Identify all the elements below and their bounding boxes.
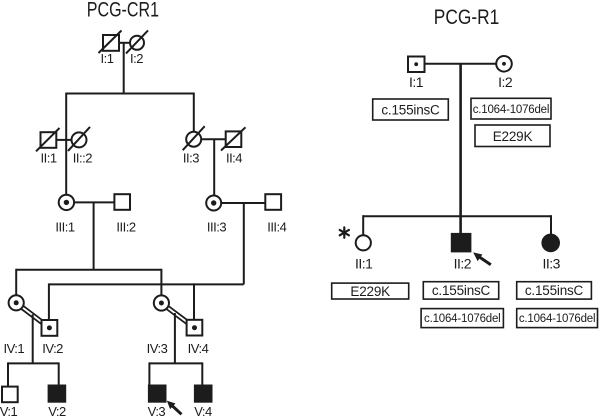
label III:3 bbox=[207, 219, 226, 234]
wire: drop to IV:1 bbox=[15, 269, 17, 296]
wire: descent from III:1 couple bbox=[93, 202, 95, 269]
label III:4 bbox=[267, 219, 286, 234]
individual I:2 carrier female right bbox=[496, 56, 512, 72]
label IV:4 bbox=[188, 341, 209, 356]
svg-text:I:1: I:1 bbox=[101, 51, 114, 66]
svg-text:I:2: I:2 bbox=[130, 51, 143, 66]
svg-text:c.155insC: c.155insC bbox=[525, 283, 584, 298]
svg-text:II::2: II::2 bbox=[73, 150, 92, 165]
label II::2 bbox=[73, 150, 92, 165]
wire: drop to V:1 bbox=[7, 362, 9, 386]
genotype box c.1064-1076del under I:2 bbox=[471, 98, 551, 119]
individual I:2 deceased female bbox=[126, 30, 148, 53]
wire: descent from IV:1 couple bbox=[32, 314, 34, 363]
label II:2 right bbox=[454, 256, 472, 272]
svg-text:III:3: III:3 bbox=[207, 219, 226, 234]
wire: right drop to II:3 bbox=[193, 93, 195, 132]
wire: descent from IV:3 couple bbox=[174, 313, 176, 363]
individual IV:3 carrier female bbox=[154, 295, 169, 310]
individual III:1 carrier female bbox=[59, 195, 74, 210]
label II:1 bbox=[41, 150, 57, 165]
svg-text:II:4: II:4 bbox=[226, 150, 242, 165]
individual III:3 carrier female bbox=[206, 196, 221, 211]
wire: sibship line generation II bbox=[66, 93, 194, 95]
svg-text:IV:4: IV:4 bbox=[188, 341, 209, 356]
label IV:1 bbox=[3, 341, 24, 356]
wire: drop to II:1 bbox=[362, 215, 364, 235]
proband arrow II:2 bbox=[473, 252, 491, 264]
wire: consanguineous double marriage line IV:3-IV:4 bbox=[161, 303, 194, 328]
svg-text:E229K: E229K bbox=[493, 129, 533, 144]
wire: marriage line I:1-I:2 left pedigree bbox=[119, 42, 130, 44]
svg-text:III:1: III:1 bbox=[55, 219, 74, 234]
wire: sibship line V (children of IV:1 x IV:2) bbox=[8, 362, 59, 364]
title PCG-CR1 bbox=[87, 0, 159, 22]
wire: sibship line IV (children of III:3 x III:4) bbox=[49, 283, 244, 285]
wire: sibship line II right pedigree bbox=[363, 215, 551, 217]
label II:3 bbox=[183, 150, 199, 165]
individual II:4 deceased male bbox=[221, 127, 246, 150]
svg-text:IV:3: IV:3 bbox=[147, 341, 168, 356]
individual V:4 affected male bbox=[195, 386, 212, 402]
genotype box c.1064-1076del under II:2 bbox=[421, 309, 503, 328]
svg-text:c.1064-1076del: c.1064-1076del bbox=[519, 313, 596, 325]
svg-text:E229K: E229K bbox=[350, 284, 390, 299]
svg-text:IV:2: IV:2 bbox=[42, 341, 63, 356]
individual I:1 deceased male bbox=[99, 31, 122, 54]
svg-text:c.155insC: c.155insC bbox=[381, 102, 440, 117]
asterisk marker at II:1 bbox=[340, 227, 349, 237]
svg-text:c.1064-1076del: c.1064-1076del bbox=[473, 104, 550, 116]
label I:1 bbox=[101, 51, 114, 66]
svg-text:II:1: II:1 bbox=[41, 150, 57, 165]
label IV:3 bbox=[147, 341, 168, 356]
wire: marriage line II:1-II::2 bbox=[56, 139, 71, 141]
individual I:1 carrier male right bbox=[408, 57, 425, 73]
proband arrow V:3 bbox=[167, 401, 182, 415]
individual II:2 affected male right bbox=[452, 234, 471, 252]
genotype box E229K under I:2 bbox=[475, 125, 550, 147]
individual IV:4 carrier male bbox=[187, 320, 203, 336]
svg-text:V:1: V:1 bbox=[0, 404, 18, 419]
svg-text:PCG-R1: PCG-R1 bbox=[434, 6, 499, 30]
wire: drop to IV:4 bbox=[193, 283, 195, 319]
wire: thick descent from I couple to II:2 bbox=[459, 64, 462, 234]
wire: drop to V:4 bbox=[201, 362, 203, 385]
individual III:4 male bbox=[265, 194, 281, 210]
wire: descent from II:3 couple to III:3 bbox=[213, 139, 215, 195]
svg-text:c.155insC: c.155insC bbox=[432, 283, 491, 298]
label II:1 right bbox=[355, 256, 373, 272]
svg-text:II:3: II:3 bbox=[542, 256, 560, 272]
svg-text:III:2: III:2 bbox=[116, 219, 135, 234]
wire: drop to IV:3 bbox=[160, 269, 162, 296]
svg-text:V:3: V:3 bbox=[148, 404, 166, 419]
label V:4 bbox=[194, 404, 212, 419]
wire: marriage line III:1-III:2 bbox=[74, 201, 114, 203]
individual V:3 affected male proband bbox=[149, 386, 166, 402]
svg-text:c.1064-1076del: c.1064-1076del bbox=[424, 313, 501, 325]
label I:2 bbox=[130, 51, 143, 66]
individual II:3 affected female right bbox=[542, 235, 559, 252]
svg-text:II:1: II:1 bbox=[355, 256, 373, 272]
individual II:3 deceased female bbox=[183, 126, 205, 150]
wire: sibship line V (children of IV:3 x IV:4) bbox=[149, 362, 202, 364]
individual V:2 affected male bbox=[49, 386, 66, 402]
label III:2 bbox=[116, 219, 135, 234]
label II:4 bbox=[226, 150, 242, 165]
wire: drop to V:2 bbox=[58, 362, 60, 385]
individual V:1 male bbox=[2, 387, 18, 403]
wire: sibship line IV (children of III:1 x III:2) bbox=[16, 269, 161, 271]
wire: marriage line II:3-II:4 bbox=[201, 138, 226, 140]
label V:2 bbox=[48, 404, 66, 419]
individual IV:1 carrier female bbox=[9, 295, 24, 310]
wire: marriage line III:3-III:4 bbox=[221, 202, 265, 204]
label I:2 right bbox=[498, 74, 513, 90]
genotype box c.1064-1076del under II:3 bbox=[517, 309, 598, 328]
label III:1 bbox=[55, 219, 74, 234]
wire: left drop to II couple and through to III:1 bbox=[65, 93, 67, 195]
individual III:2 male bbox=[114, 194, 130, 210]
wire: drop to IV:2 bbox=[48, 283, 50, 320]
wire: descent from III:3 couple bbox=[243, 203, 245, 284]
individual II::2 deceased female bbox=[68, 127, 90, 151]
svg-text:V:2: V:2 bbox=[48, 404, 66, 419]
title PCG-R1 bbox=[434, 6, 499, 30]
individual IV:2 carrier male bbox=[42, 320, 58, 336]
wire: drop to V:3 bbox=[148, 362, 150, 385]
label I:1 right bbox=[409, 74, 424, 90]
label V:1 bbox=[0, 404, 18, 419]
label II:3 right bbox=[542, 256, 560, 272]
genotype box E229K under II:1 bbox=[332, 283, 409, 299]
svg-text:I:1: I:1 bbox=[409, 74, 424, 90]
svg-text:III:4: III:4 bbox=[267, 219, 286, 234]
genotype box c.155insC under II:3 bbox=[517, 282, 592, 299]
individual II:1 female right bbox=[356, 235, 371, 250]
label V:3 bbox=[148, 404, 166, 419]
wire: descent from I couple bbox=[123, 43, 125, 94]
individual II:1 deceased male bbox=[36, 128, 60, 151]
wire: marriage line I:1-I:2 right pedigree bbox=[425, 63, 497, 65]
svg-text:V:4: V:4 bbox=[194, 404, 212, 419]
genotype box c.155insC under I:1 bbox=[373, 99, 449, 120]
wire: drop to II:3 bbox=[550, 215, 552, 234]
genotype box c.155insC under II:2 bbox=[423, 282, 498, 299]
wire: consanguineous double marriage line IV:1-IV:2 bbox=[16, 303, 49, 328]
label IV:2 bbox=[42, 341, 63, 356]
svg-text:II:2: II:2 bbox=[454, 256, 472, 272]
svg-text:PCG-CR1: PCG-CR1 bbox=[87, 0, 159, 22]
svg-text:II:3: II:3 bbox=[183, 150, 199, 165]
svg-text:I:2: I:2 bbox=[498, 74, 513, 90]
svg-text:IV:1: IV:1 bbox=[3, 341, 24, 356]
